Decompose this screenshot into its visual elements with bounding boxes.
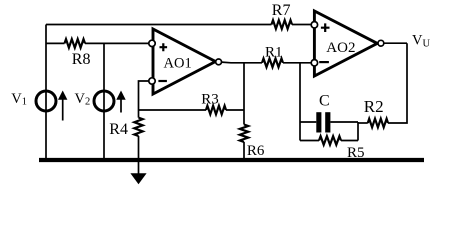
svg-text:R4: R4 <box>109 121 128 138</box>
svg-text:R1: R1 <box>265 45 283 61</box>
wire AO1 - input feedback to node B <box>139 81 149 118</box>
svg-text:VU: VU <box>412 33 430 50</box>
arrow V1 direction <box>58 91 67 121</box>
resistor R7 <box>272 20 293 29</box>
svg-text:AO2: AO2 <box>326 40 355 56</box>
wire capacitor to node E <box>330 121 358 123</box>
op-amp AO2 <box>314 11 377 76</box>
wire R6 to ground rail <box>243 142 245 159</box>
capacitor C <box>316 112 330 132</box>
ground rail <box>39 158 424 162</box>
pin + of AO1 <box>149 40 155 46</box>
pin - of AO2 <box>311 60 317 66</box>
wire AO1 output to R1 <box>222 61 262 64</box>
wire node B to R3 <box>139 109 207 111</box>
wire R4 to ground rail <box>138 136 140 159</box>
wire node D to capacitor C <box>300 121 316 123</box>
svg-text:R6: R6 <box>247 143 265 159</box>
wire R5 left segment <box>300 140 319 142</box>
wire R2 to output net <box>388 43 407 123</box>
svg-text:C: C <box>319 92 330 109</box>
resistor R8 <box>65 39 86 48</box>
wire V2 vertical from R8 net through V2 to ground rail <box>103 43 105 158</box>
svg-text:V2: V2 <box>75 91 91 108</box>
wire R8 net left segment <box>46 42 65 44</box>
resistor R5 <box>319 136 341 145</box>
resistor R6 <box>240 125 248 143</box>
op-amp AO1 <box>153 29 216 94</box>
wire R7 to AO2 + input <box>292 24 311 26</box>
wire R1 to AO2 - input <box>283 62 311 64</box>
wire R5 to node E <box>341 122 358 141</box>
pin - of AO1 <box>149 78 155 84</box>
ground <box>130 162 146 184</box>
pin output of AO2 <box>378 40 384 46</box>
resistor R1 <box>262 59 283 68</box>
wire top net from node A to R7 <box>46 24 272 26</box>
wire node E to R2 <box>358 122 368 124</box>
resistor R4 <box>134 118 142 136</box>
wire node C vertical to R6 <box>243 63 245 125</box>
arrow V2 direction <box>116 91 125 113</box>
wire AO2 output to node VU <box>384 42 407 44</box>
source V1 <box>36 91 56 111</box>
wire R8 to AO1 + input <box>85 42 148 44</box>
svg-text:R2: R2 <box>364 97 384 116</box>
svg-text:AO1: AO1 <box>164 55 192 71</box>
svg-text:R7: R7 <box>272 2 291 19</box>
resistor R2 <box>368 119 388 128</box>
source V2 <box>94 91 114 111</box>
svg-text:V1: V1 <box>11 91 27 108</box>
svg-text:R3: R3 <box>201 91 219 107</box>
pin + of AO2 <box>311 22 317 28</box>
resistor R3 <box>206 106 226 115</box>
svg-text:R8: R8 <box>72 51 91 68</box>
wire node D vertical (AO2 - input to feedback network) <box>299 63 301 141</box>
pin output of AO1 <box>216 59 222 65</box>
wire left vertical from top net down through V1 to ground rail <box>45 25 47 159</box>
wire R3 to node C <box>226 109 244 111</box>
